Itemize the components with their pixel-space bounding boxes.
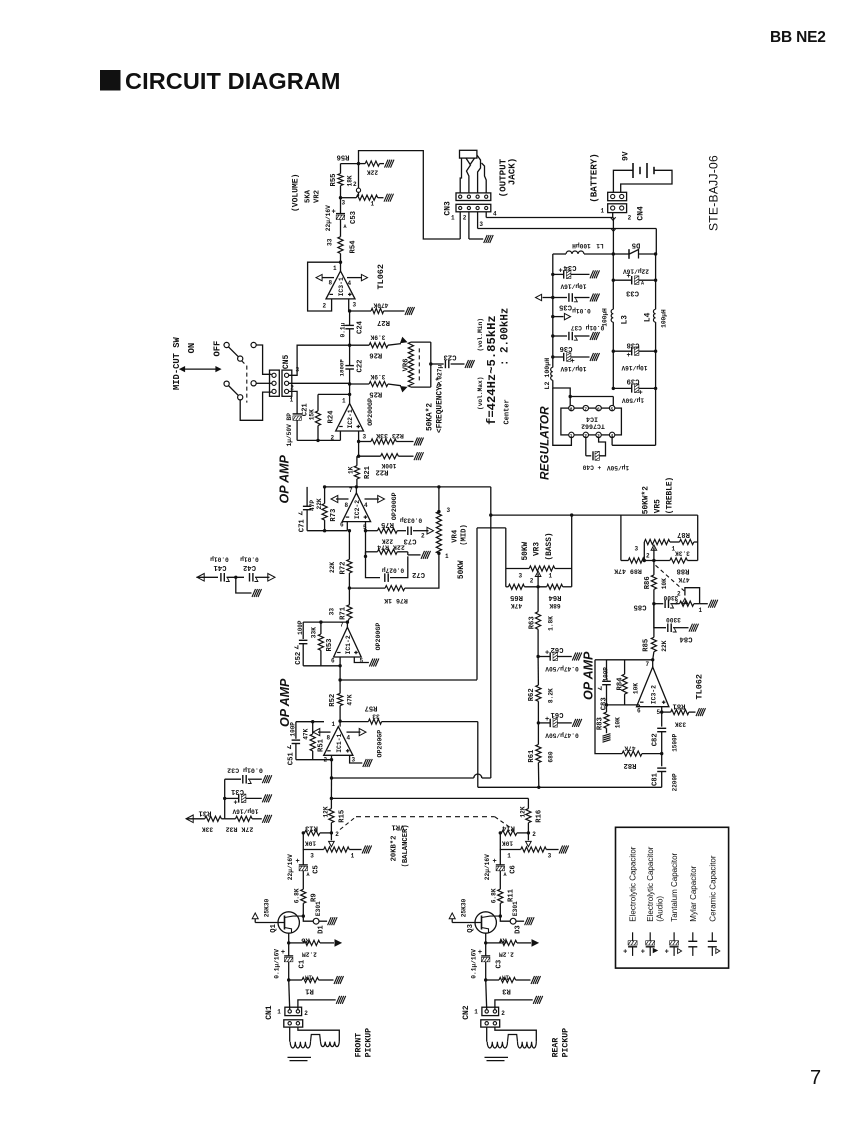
svg-text:2: 2 [501,1010,505,1017]
svg-text:OP200GP: OP200GP [375,623,382,651]
svg-text:+: + [493,858,497,866]
svg-text:100µH: 100µH [572,242,591,249]
svg-text:R81: R81 [672,702,686,710]
svg-text:2: 2 [646,553,650,560]
svg-text:R84: R84 [617,677,625,691]
svg-text:5KA: 5KA [305,189,313,203]
svg-text:C23: C23 [444,353,457,361]
svg-text:A: A [504,872,507,878]
svg-text:4: 4 [364,502,368,509]
svg-text:C3: C3 [495,960,503,969]
svg-text:R56: R56 [337,153,350,161]
svg-text:Center: Center [504,399,512,424]
svg-text:Mylar Capacitor: Mylar Capacitor [689,865,698,921]
svg-text:Tantalum Capacitor: Tantalum Capacitor [670,852,679,921]
svg-text:6.8K: 6.8K [293,888,300,903]
svg-text:1: 1 [445,553,449,560]
svg-text:+: + [627,352,631,360]
svg-text:CN4: CN4 [637,206,646,221]
svg-text:0.027µ: 0.027µ [382,567,405,574]
svg-text:5: 5 [611,406,614,412]
svg-text:22µ/16V: 22µ/16V [484,854,491,880]
svg-text:R83: R83 [597,717,605,730]
svg-text:R54: R54 [350,240,358,254]
svg-text:50KA*2: 50KA*2 [427,403,435,431]
svg-text:33: 33 [372,713,380,720]
svg-text:100P: 100P [297,620,304,635]
svg-text:Electrolytic Capacitor: Electrolytic Capacitor [629,846,638,921]
svg-text:8: 8 [570,406,573,412]
svg-text:OFF: OFF [213,341,223,357]
svg-text:22K: 22K [316,498,323,509]
svg-text:33K: 33K [202,826,213,833]
svg-text:33: 33 [327,238,334,246]
svg-text:C73: C73 [404,537,417,545]
svg-text:TC7662: TC7662 [581,423,605,430]
svg-text:47P: 47P [309,500,316,511]
svg-text:R16: R16 [536,810,544,823]
svg-text:2: 2 [532,831,536,838]
svg-text:IC4: IC4 [586,416,598,423]
svg-text:CN2: CN2 [462,1005,471,1020]
svg-text:C52: C52 [295,652,303,665]
svg-text:R89 47K: R89 47K [614,568,642,575]
svg-text:10K: 10K [633,683,640,694]
svg-text:4: 4 [348,280,352,287]
svg-text:4: 4 [347,735,351,742]
svg-text:+: + [296,858,300,866]
svg-text:1: 1 [601,208,605,215]
svg-text:10µ/16V: 10µ/16V [621,364,647,371]
svg-text:REGULATOR: REGULATOR [538,406,552,480]
svg-text:0.01µ: 0.01µ [210,556,229,563]
svg-text:10µ/16V: 10µ/16V [232,808,258,815]
svg-text:1: 1 [672,546,676,553]
svg-text:6: 6 [331,657,335,664]
svg-text:BB NE2: BB NE2 [770,29,826,46]
svg-text:100µH: 100µH [602,308,609,327]
svg-text:R11: R11 [508,888,516,902]
svg-text:2: 2 [421,533,425,540]
svg-text:2: 2 [304,1010,308,1017]
svg-text:3300: 3300 [666,616,681,623]
svg-text:R1: R1 [305,987,314,995]
svg-text:47K: 47K [347,694,354,705]
svg-text:OP200GP: OP200GP [377,730,384,758]
svg-text:12K: 12K [323,806,330,817]
svg-text:0.01µ: 0.01µ [240,556,259,563]
svg-text:A: A [344,224,347,230]
svg-text:(MID): (MID) [461,524,469,546]
svg-text:1µ/50V: 1µ/50V [607,464,630,471]
svg-text:8: 8 [327,735,331,742]
svg-text:IC3-1: IC3-1 [338,277,345,296]
svg-text:C84: C84 [679,635,693,643]
svg-text:(BASS): (BASS) [546,532,554,560]
svg-text:CN3: CN3 [444,201,453,216]
svg-text:9V: 9V [622,151,631,161]
svg-text:47K: 47K [624,745,635,752]
svg-text:1M: 1M [502,974,510,981]
svg-text:22K R74: 22K R74 [377,543,405,550]
svg-text:A: A [641,281,644,287]
svg-text:2200P: 2200P [672,773,679,791]
svg-text:+ C40: + C40 [582,464,601,471]
svg-text:E301: E301 [512,901,519,916]
svg-text:CN1: CN1 [265,1005,274,1020]
svg-text:1800P: 1800P [339,359,346,377]
svg-text:R62: R62 [528,688,536,701]
svg-text:R52: R52 [329,694,337,707]
svg-text:R55: R55 [330,174,338,187]
svg-text:6.8K: 6.8K [490,888,497,903]
svg-text:PICKUP: PICKUP [365,1028,374,1058]
svg-text:7: 7 [646,661,650,668]
svg-text:0.47µ/50V: 0.47µ/50V [545,732,579,739]
svg-text:(Audio): (Audio) [656,896,665,922]
svg-text:+: + [665,949,669,957]
svg-text:C33: C33 [626,289,639,297]
svg-text:3: 3 [310,853,314,860]
svg-text:C41: C41 [213,563,227,571]
svg-text:1: 1 [451,215,455,222]
svg-text:2: 2 [290,385,294,392]
svg-text:0.01µ: 0.01µ [572,307,591,314]
svg-text:R65: R65 [510,593,523,601]
svg-text:TL062: TL062 [695,674,705,700]
svg-text:680: 680 [548,751,555,762]
svg-text:1µ/50V BP: 1µ/50V BP [286,413,293,447]
svg-text:C1: C1 [298,959,306,968]
svg-text:7: 7 [340,622,344,629]
svg-text:1: 1 [371,201,375,208]
svg-text:R75: R75 [381,520,394,528]
svg-text:VR3: VR3 [534,542,542,556]
svg-text:R51: R51 [318,738,326,752]
svg-text:R85: R85 [643,639,651,652]
svg-text:+: + [332,209,336,217]
svg-text:8.2K: 8.2K [548,688,555,703]
svg-text:f=424Hz~5.85kHz: f=424Hz~5.85kHz [485,315,499,425]
svg-text:C42: C42 [243,563,256,571]
svg-text:CN5: CN5 [282,354,291,369]
svg-text:3: 3 [479,221,483,228]
svg-text:2: 2 [628,215,632,222]
svg-text:R14: R14 [501,824,515,832]
svg-text:50KW: 50KW [522,541,530,560]
svg-text:C61: C61 [550,710,564,718]
svg-text:15K: 15K [309,409,316,420]
svg-text:R73: R73 [330,509,338,522]
svg-text:1: 1 [342,397,346,404]
svg-text:OP AMP: OP AMP [278,454,292,503]
svg-text:10K: 10K [502,840,513,847]
svg-text:D1: D1 [318,925,326,934]
svg-text:25K30: 25K30 [461,898,468,917]
svg-text:R21: R21 [364,465,372,479]
svg-text:C6: C6 [510,865,518,874]
svg-text:0.1µ/16V: 0.1µ/16V [471,949,478,979]
svg-text:33: 33 [329,608,336,616]
svg-text:27K R32: 27K R32 [226,826,254,833]
svg-text:10µ/16V: 10µ/16V [560,365,586,372]
svg-text:IC2-2: IC2-2 [354,500,361,519]
svg-text:C85: C85 [634,603,647,611]
svg-text:(vol.Max): (vol.Max) [477,377,484,410]
svg-text:10µ/16V: 10µ/16V [560,283,586,290]
svg-text:2.2M: 2.2M [499,951,514,958]
svg-text:10K: 10K [661,578,668,589]
svg-text:20KB*2: 20KB*2 [391,836,399,862]
svg-text:R53: R53 [326,639,334,652]
svg-text:1500P: 1500P [672,733,679,751]
svg-text:TL062: TL062 [376,264,386,290]
svg-text:C51: C51 [288,752,296,766]
svg-text:2.2M: 2.2M [302,951,317,958]
svg-text:C5: C5 [313,865,321,874]
svg-text:22µ/16V: 22µ/16V [287,854,294,880]
svg-text:5: 5 [360,658,364,665]
svg-text:C22: C22 [357,360,365,373]
svg-text:0.01µ C37: 0.01µ C37 [571,324,605,331]
svg-text:1: 1 [277,1009,281,1016]
svg-text:22µ/16V: 22µ/16V [325,205,332,231]
svg-text:R88: R88 [677,567,690,575]
svg-text:100P: 100P [290,722,297,737]
svg-text:0.01µ C32: 0.01µ C32 [227,767,263,774]
svg-text:A: A [307,872,310,878]
svg-text:47K: 47K [511,602,522,609]
svg-text:+: + [281,949,285,957]
svg-text:33K: 33K [675,721,686,728]
svg-text:R82: R82 [624,761,637,769]
svg-text:C72: C72 [412,570,425,578]
svg-text:R5: R5 [301,936,310,944]
svg-text:C36: C36 [560,344,573,352]
svg-text:3: 3 [447,507,451,514]
svg-text:+: + [478,949,482,957]
svg-text:+: + [545,716,549,724]
svg-text:R26: R26 [369,351,382,359]
svg-text:CIRCUIT DIAGRAM: CIRCUIT DIAGRAM [125,68,341,94]
svg-text:47K: 47K [303,728,310,739]
svg-text:R22: R22 [376,468,389,476]
svg-text:(TREBLE): (TREBLE) [667,477,675,514]
svg-text:+: + [623,949,627,957]
svg-text:100P: 100P [603,667,610,682]
svg-text:3: 3 [635,546,639,553]
svg-text:L4: L4 [645,312,653,322]
svg-text:OP200GP: OP200GP [367,398,374,426]
svg-text:C81: C81 [652,772,660,786]
svg-text:OP AMP: OP AMP [278,678,292,727]
svg-text:L1: L1 [596,242,604,249]
svg-text:7: 7 [810,1067,821,1089]
svg-text:C71: C71 [299,519,307,533]
svg-text:JACK): JACK) [507,158,518,186]
svg-text:(vol.Min): (vol.Min) [477,318,484,351]
svg-text:5: 5 [657,709,661,716]
svg-text:OP200GP: OP200GP [391,492,398,520]
svg-text:R72: R72 [340,562,348,575]
svg-text:C62: C62 [551,645,564,653]
svg-text:1: 1 [549,573,553,580]
svg-text:R57: R57 [365,704,378,712]
svg-text:22K: 22K [661,640,668,651]
svg-text:6: 6 [637,708,641,715]
svg-text:L2 100µH: L2 100µH [544,358,551,390]
svg-text:2: 2 [335,831,339,838]
svg-text:: 2.00kHz: : 2.00kHz [500,308,512,366]
svg-text:R31: R31 [198,809,212,817]
svg-text:100µH: 100µH [661,309,668,328]
svg-text:1: 1 [290,397,294,404]
svg-text:PICKUP: PICKUP [562,1028,571,1058]
svg-text:+: + [545,650,549,658]
svg-text:R27: R27 [377,318,390,326]
svg-text:R23 33K: R23 33K [376,432,404,439]
svg-text:3.3K: 3.3K [675,550,690,557]
svg-text:+: + [234,799,238,807]
svg-text:Q1: Q1 [270,923,278,932]
svg-text:IC1-2: IC1-2 [345,635,352,654]
svg-text:+: + [571,358,575,366]
svg-text:C24: C24 [357,320,365,334]
svg-text:3: 3 [519,573,523,580]
svg-text:R86: R86 [644,576,652,589]
svg-text:1K: 1K [348,466,355,474]
svg-text:3: 3 [342,200,346,207]
svg-text:3.9K: 3.9K [370,373,385,380]
svg-text:C39: C39 [627,377,640,385]
svg-text:+: + [639,389,643,397]
svg-text:2: 2 [331,435,335,442]
svg-text:VR4: VR4 [452,529,460,543]
svg-text:Q3: Q3 [467,924,475,933]
svg-text:47K: 47K [678,576,689,583]
svg-text:ON: ON [187,343,197,354]
svg-text:<FREQUENCY>*: <FREQUENCY>* [437,377,445,433]
svg-text:2: 2 [353,181,357,188]
svg-text:VR2: VR2 [314,190,322,203]
svg-text:1: 1 [333,265,337,272]
svg-text:L3: L3 [622,315,630,325]
svg-text:VR5: VR5 [655,499,663,513]
svg-text:R13: R13 [305,824,318,832]
svg-text:4: 4 [493,211,497,218]
svg-text:1: 1 [474,1009,478,1016]
svg-text:IC1-1: IC1-1 [336,733,343,752]
svg-text:10K: 10K [305,840,316,847]
svg-text:1: 1 [507,853,511,860]
svg-text:7: 7 [349,487,353,494]
svg-text:50KW*2: 50KW*2 [643,486,651,514]
svg-text:FRONT: FRONT [355,1033,364,1058]
svg-text:8: 8 [329,280,333,287]
svg-text:+: + [559,267,563,275]
svg-text:33K: 33K [311,627,318,638]
svg-text:22µ/16V: 22µ/16V [623,268,649,275]
svg-text:R76 1K: R76 1K [384,597,408,604]
svg-text:6: 6 [340,522,344,529]
svg-text:3300: 3300 [663,594,678,601]
svg-text:470K: 470K [373,302,388,309]
svg-text:R9: R9 [311,893,319,902]
svg-text:STE-BAJJ-06: STE-BAJJ-06 [707,155,721,231]
svg-text:0.47µ/50V: 0.47µ/50V [545,665,579,672]
svg-text:3: 3 [548,853,552,860]
svg-text:6: 6 [597,406,600,412]
svg-text:C82: C82 [652,733,660,746]
svg-text:10K: 10K [615,717,622,728]
svg-text:50KW: 50KW [458,560,466,579]
svg-text:D3: D3 [515,925,523,934]
svg-text:12K: 12K [520,806,527,817]
svg-text:1: 1 [351,853,355,860]
svg-text:1M: 1M [305,974,313,981]
svg-text:25K30: 25K30 [264,898,271,917]
svg-text:R87: R87 [677,530,690,538]
svg-text:OP AMP: OP AMP [582,651,596,700]
svg-text:68K: 68K [549,602,560,609]
svg-text:(BALANCER): (BALANCER) [402,824,410,867]
svg-text:(BATTERY): (BATTERY) [589,153,600,203]
svg-text:IC3-2: IC3-2 [650,685,657,704]
svg-text:0.1µ/16V: 0.1µ/16V [274,949,281,979]
svg-text:C35: C35 [559,303,572,311]
svg-text:R7: R7 [498,936,507,944]
svg-text:MID-CUT SW: MID-CUT SW [172,336,182,390]
svg-text:2: 2 [463,215,467,222]
svg-text:3: 3 [353,302,357,309]
svg-text:D5: D5 [632,241,641,249]
svg-text:22K: 22K [329,562,336,573]
svg-text:22K: 22K [367,169,378,176]
svg-text:7: 7 [584,406,587,412]
svg-text:REAR: REAR [552,1038,561,1058]
svg-text:1µ/50V: 1µ/50V [622,397,645,404]
svg-text:2: 2 [323,303,327,310]
svg-text:R63: R63 [529,616,537,629]
svg-text:E301: E301 [315,901,322,916]
svg-text:0.1µ: 0.1µ [340,322,347,337]
svg-text:3: 3 [363,434,367,441]
svg-text:R61: R61 [528,749,536,763]
svg-text:IC2-1: IC2-1 [347,409,354,428]
svg-text:R64: R64 [548,593,562,601]
svg-text:1: 1 [699,607,703,614]
svg-text:C34: C34 [563,263,577,271]
svg-text:C31: C31 [230,787,244,795]
svg-text:1.8K: 1.8K [548,616,555,631]
svg-text:VR6: VR6 [403,358,411,371]
svg-text:R71: R71 [340,606,348,620]
svg-text:C38: C38 [627,341,640,349]
svg-text:Ceramic Capacitor: Ceramic Capacitor [708,855,717,922]
svg-text:(VOLUME): (VOLUME) [292,174,301,212]
svg-text:0.033µ: 0.033µ [400,517,423,524]
svg-text:R24: R24 [328,410,336,424]
svg-text:1: 1 [332,721,336,728]
svg-text:3.9K: 3.9K [370,334,385,341]
svg-text:8: 8 [345,502,349,509]
svg-text:R25: R25 [369,390,382,398]
svg-text:2: 2 [530,578,534,585]
svg-text:+: + [641,949,645,957]
svg-text:C53: C53 [350,211,358,224]
svg-text:R3: R3 [502,987,511,995]
svg-text:Electrolytic Capacitor: Electrolytic Capacitor [646,846,655,921]
